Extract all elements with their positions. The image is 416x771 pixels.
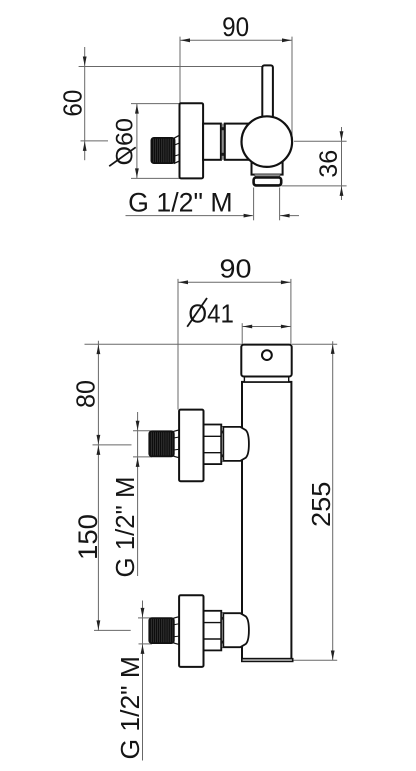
upper flange: [179, 410, 203, 482]
36 bottom extension (outlet bottom): [282, 185, 347, 187]
svg-text:150: 150: [73, 514, 103, 560]
arrow 90 left: [181, 38, 191, 42]
svg-text:G 1/2" M: G 1/2" M: [115, 656, 145, 760]
Ø41 extended slash: [187, 298, 207, 327]
Ø60 bottom extension: [131, 177, 180, 179]
arrow G right (points left): [280, 214, 290, 218]
svg-text:G 1/2" M: G 1/2" M: [112, 477, 140, 578]
Ø41 left extension: [241, 323, 243, 344]
G label leader left: [126, 215, 253, 217]
dim 90 line: [180, 39, 292, 41]
nipple runout: [175, 135, 180, 163]
arrow 80 bottom (points down): [97, 435, 101, 445]
outlet neck: [252, 150, 283, 175]
upper runout: [174, 430, 179, 458]
svg-text:60: 60: [60, 90, 88, 117]
dim 255 vertical line: [332, 341, 334, 660]
Ø60 top extension: [131, 103, 180, 105]
arrow Ø60 top (points up): [135, 104, 139, 114]
lower flange: [179, 595, 203, 667]
arrow 255 bottom (points down): [331, 651, 335, 661]
arrow lower G bottom (points up): [141, 644, 145, 654]
joint under cap: [244, 377, 288, 382]
90 right extension: [290, 279, 292, 345]
axis stub: [81, 140, 109, 142]
arrow 150 top (points up): [97, 445, 101, 455]
svg-text:90: 90: [222, 12, 249, 42]
svg-text:G 1/2" M: G 1/2" M: [128, 188, 233, 218]
upper hex flat lines: [204, 435, 222, 437]
svg-text:255: 255: [306, 482, 336, 528]
body circle: [241, 116, 292, 167]
lower runout: [174, 617, 179, 645]
lower inlet hex nut: [204, 611, 222, 651]
body top extension left: [85, 343, 242, 345]
threaded nipple G1/2: [151, 138, 174, 163]
arrow G left (points right): [244, 214, 254, 218]
arrow lower G top (points down): [141, 608, 145, 618]
dim 80/150 vertical line: [97, 341, 99, 631]
outlet right extension: [279, 188, 281, 221]
outlet left extension: [253, 188, 255, 221]
handle stem: [262, 65, 273, 125]
dim 36 line: [341, 127, 343, 200]
svg-text:90: 90: [220, 254, 252, 284]
upper G top stub: [133, 430, 151, 432]
arrow 60 top (points down): [83, 57, 87, 67]
arrow upper G top (points down): [136, 421, 140, 431]
bottom base band: [242, 659, 293, 662]
dim Ø41 line: [242, 326, 291, 328]
upper G bottom stub: [133, 456, 152, 458]
dim 90 left extension: [179, 37, 181, 103]
cap hole: [262, 350, 272, 360]
upper inlet hex nut: [204, 425, 222, 465]
arrow Ø60 bottom (points down): [135, 168, 139, 178]
arrow 80 top (points up): [97, 345, 101, 355]
arrow 90 left: [179, 280, 189, 284]
svg-text:O60: O60: [111, 118, 138, 166]
arrow 60 bottom (points up): [83, 141, 87, 151]
dim Ø60 line: [136, 104, 138, 178]
upper G dim line: [137, 412, 139, 576]
dim 60 line: [84, 47, 86, 160]
lower G top stub: [138, 617, 151, 619]
body cylinder: [242, 382, 291, 659]
arrow 36 top (points down): [340, 131, 344, 141]
arrow 36 bottom (points up): [340, 186, 344, 196]
upper gray band: [221, 427, 224, 461]
arrow 255 top (points up): [331, 344, 335, 354]
upper inlet dome nut: [223, 427, 249, 461]
handle-top extension: [79, 66, 263, 68]
arrow 150 bottom (points down): [97, 620, 101, 630]
36 top extension (circle axis): [294, 140, 347, 142]
body bottom extension: [293, 659, 337, 661]
connector section 2: [225, 124, 250, 160]
lower threaded nipple: [149, 618, 174, 643]
lower gray band: [221, 613, 224, 647]
arrow upper G bottom (points up): [136, 457, 140, 467]
arrow Ø41 right: [281, 325, 291, 329]
svg-text:36: 36: [315, 150, 343, 178]
body top extension right: [292, 343, 337, 345]
wall flange Ø60: [180, 103, 204, 178]
svg-text:O41: O41: [188, 298, 234, 328]
lower inlet dome nut: [223, 613, 249, 647]
top cap: [241, 345, 291, 377]
axis stub lower inlet: [94, 629, 131, 631]
lower G dim line: [142, 601, 144, 761]
upper threaded nipple: [149, 431, 174, 456]
90 left extension: [177, 279, 179, 410]
outlet collar: [254, 178, 282, 186]
lower G bottom stub: [139, 643, 153, 645]
lower hex flat lines: [204, 622, 222, 624]
axis stub upper inlet: [93, 444, 132, 446]
svg-text:80: 80: [73, 380, 101, 408]
connector section 1: [203, 124, 221, 160]
outlet chamfer: [254, 174, 280, 178]
G label leader right: [280, 215, 299, 217]
arrow Ø41 left: [243, 325, 253, 329]
gray ring band: [221, 124, 224, 160]
arrow 90 right: [282, 38, 292, 42]
arrow 90 right: [281, 280, 291, 284]
dim 90 line: [178, 281, 291, 283]
dim 90 right extension: [291, 37, 293, 142]
Ø60 extended slash: [109, 147, 136, 166]
